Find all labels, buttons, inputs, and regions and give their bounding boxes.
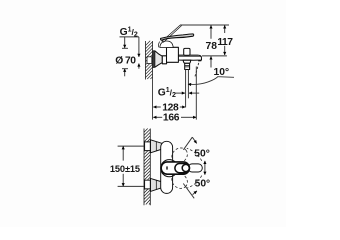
svg-text:50°: 50°	[194, 148, 210, 159]
svg-text:G1/2: G1/2	[158, 87, 176, 99]
svg-text:78: 78	[206, 41, 218, 52]
svg-text:150±15: 150±15	[110, 164, 140, 174]
svg-text:Ø 70: Ø 70	[115, 56, 136, 67]
svg-text:117: 117	[217, 37, 233, 48]
svg-text:50°: 50°	[195, 179, 211, 190]
svg-text:166: 166	[163, 113, 180, 124]
svg-text:10°: 10°	[214, 67, 230, 78]
